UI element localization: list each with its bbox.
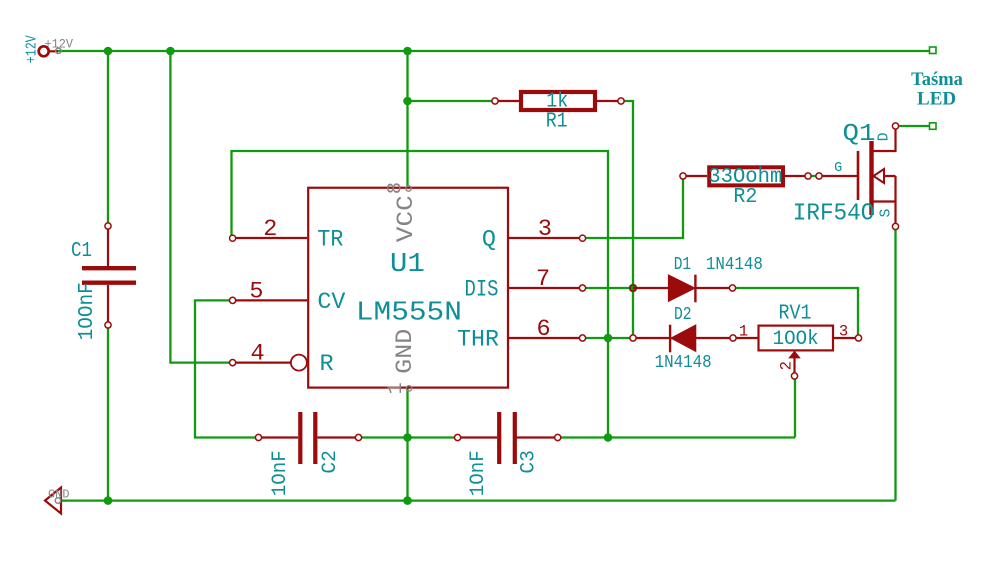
- svg-text:C2: C2: [319, 450, 342, 474]
- svg-text:GND: GND: [48, 488, 70, 502]
- svg-text:D: D: [877, 133, 893, 142]
- svg-text:RV1: RV1: [779, 302, 812, 325]
- svg-text:S: S: [878, 209, 894, 218]
- svg-text:1: 1: [385, 382, 408, 394]
- svg-text:G: G: [834, 161, 842, 176]
- svg-text:Q: Q: [482, 227, 496, 254]
- svg-text:THR: THR: [457, 327, 499, 354]
- svg-text:5: 5: [249, 278, 263, 305]
- svg-text:7: 7: [536, 266, 550, 293]
- svg-text:+12V: +12V: [23, 35, 40, 63]
- svg-text:Taśma: Taśma: [911, 70, 963, 90]
- svg-text:C3: C3: [518, 450, 541, 474]
- svg-text:8: 8: [385, 182, 408, 194]
- svg-text:+12V: +12V: [45, 38, 74, 52]
- svg-text:2: 2: [777, 361, 795, 370]
- svg-text:6: 6: [536, 316, 550, 343]
- svg-text:U1: U1: [390, 249, 425, 279]
- svg-text:LM555N: LM555N: [356, 298, 462, 328]
- svg-text:DIS: DIS: [465, 277, 499, 304]
- svg-text:1OnF: 1OnF: [269, 450, 292, 496]
- svg-text:D1: D1: [674, 254, 692, 275]
- svg-text:3: 3: [839, 323, 848, 341]
- svg-text:R1: R1: [546, 111, 568, 134]
- svg-text:LED: LED: [917, 89, 956, 110]
- svg-text:VCC: VCC: [393, 195, 420, 242]
- svg-text:4: 4: [251, 340, 265, 367]
- svg-text:CV: CV: [317, 289, 345, 316]
- svg-text:2: 2: [263, 216, 277, 243]
- svg-text:GND: GND: [392, 329, 419, 374]
- svg-text:1OnF: 1OnF: [467, 450, 490, 496]
- svg-text:D2: D2: [674, 304, 692, 325]
- svg-text:Q1: Q1: [843, 121, 876, 148]
- svg-text:1N4148: 1N4148: [655, 352, 712, 373]
- svg-text:1OOk: 1OOk: [773, 328, 819, 351]
- svg-text:1N4148: 1N4148: [706, 254, 763, 275]
- svg-text:3: 3: [538, 216, 552, 243]
- svg-text:IRF54O: IRF54O: [793, 201, 875, 228]
- svg-text:1: 1: [739, 323, 748, 341]
- svg-text:TR: TR: [317, 227, 343, 254]
- svg-text:R: R: [320, 351, 334, 378]
- svg-text:1OOnF: 1OOnF: [76, 282, 99, 340]
- svg-text:R2: R2: [733, 186, 757, 209]
- svg-text:C1: C1: [71, 240, 92, 263]
